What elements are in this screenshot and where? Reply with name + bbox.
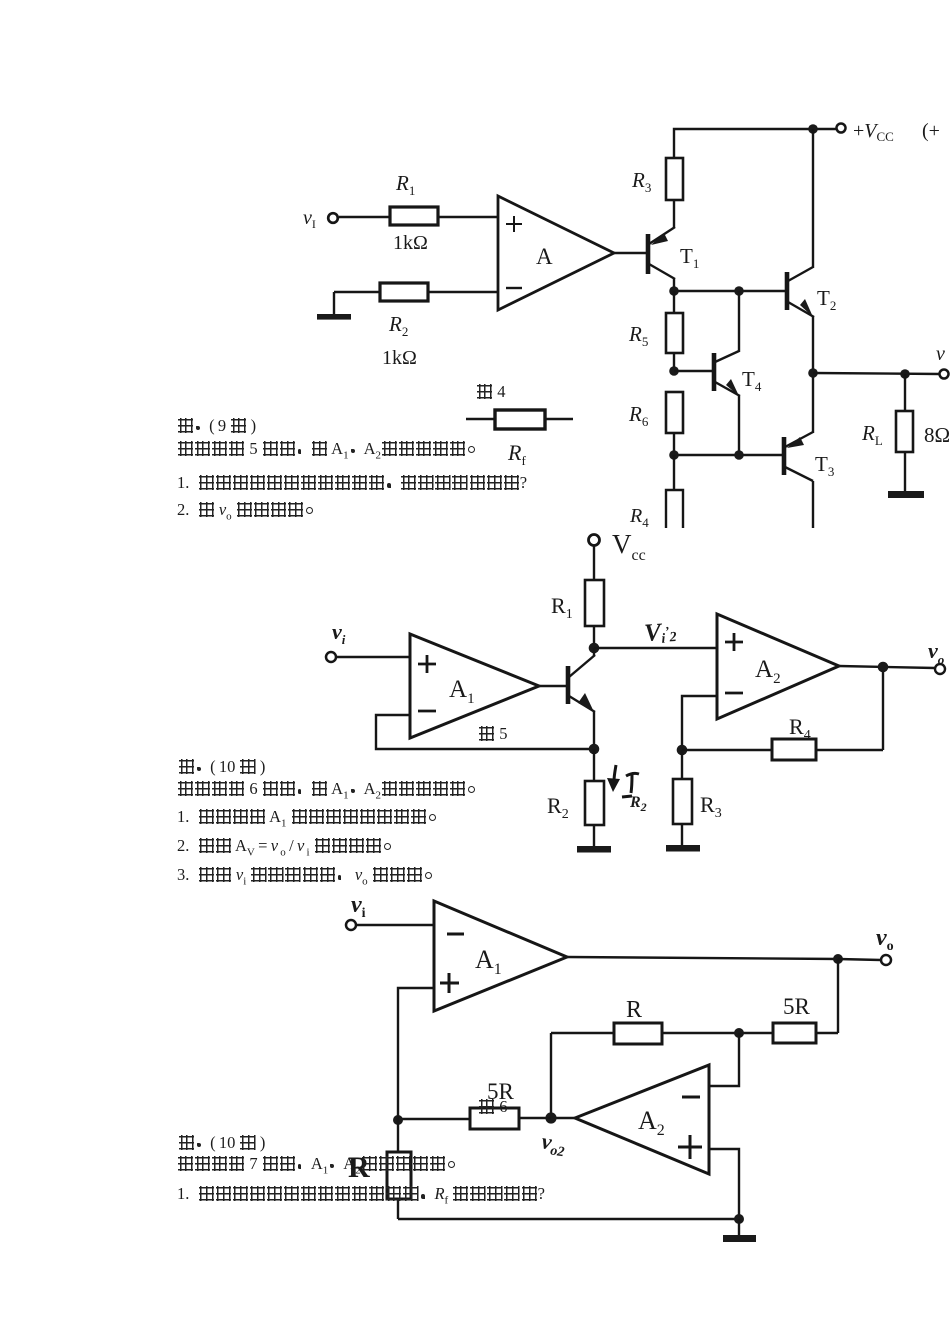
- text line 5 intro: [177, 439, 481, 461]
- wire Q collector to node: [593, 648, 595, 656]
- text line 5 q1: [177, 473, 527, 493]
- wire node to A2 + input: [594, 647, 717, 649]
- wire R6 to T3 base: [674, 454, 782, 456]
- svg-text:Rf: Rf: [507, 440, 526, 468]
- wire Q emitter down: [593, 712, 595, 749]
- svg-text:vo2: vo2: [540, 1128, 568, 1160]
- node T4 emitter: [734, 450, 744, 460]
- resistor R1 (fig5): [585, 580, 604, 626]
- op-amp A2 (fig6, points left): [575, 1065, 709, 1174]
- svg-text:T3: T3: [815, 452, 834, 479]
- svg-text:T2: T2: [817, 286, 836, 313]
- wire T2 collector to VCC: [812, 129, 814, 268]
- node R3/R4: [677, 745, 688, 756]
- wire T1 collector to T2 base: [674, 290, 785, 292]
- svg-text:1kΩ: 1kΩ: [382, 347, 417, 369]
- wire junction to A2 minus: [709, 1033, 739, 1086]
- svg-text:R1: R1: [551, 593, 573, 622]
- text line 5 q2: [177, 500, 319, 522]
- wire R1 to node: [593, 626, 595, 648]
- wire T2 emitter to output node: [812, 316, 814, 373]
- text line section 6 heading: [178, 757, 265, 777]
- transistor Q (NPN, fig5): [539, 655, 595, 712]
- wire T1 emitter to R3: [673, 200, 675, 228]
- resistor R5: [666, 291, 683, 371]
- svg-text:1kΩ: 1kΩ: [393, 232, 428, 254]
- node R5/R6/T4 base: [669, 366, 679, 376]
- svg-text:Vcc: Vcc: [612, 529, 646, 564]
- node vo terminal fig6: [881, 955, 891, 965]
- resistor R4 (fig5): [682, 739, 883, 760]
- svg-text:+VCC(+: +VCC(+: [853, 120, 940, 144]
- transistor T4 (NPN): [714, 351, 740, 396]
- svg-text:vo: vo: [928, 638, 945, 667]
- node vi terminal fig6: [346, 920, 356, 930]
- node vi terminal: [326, 652, 336, 662]
- wire node to T4 base: [674, 370, 712, 372]
- ground fig6: [723, 1219, 756, 1242]
- wire A2 out to vo2 node: [551, 1117, 575, 1119]
- node left junction: [393, 1115, 403, 1125]
- node +VCC terminal: [837, 124, 846, 133]
- svg-text:8Ω: 8Ω: [924, 423, 950, 447]
- node R/5R junction: [734, 1028, 744, 1038]
- node emitter/R2: [589, 744, 600, 755]
- annotation arrow + T -R2 handwritten: [614, 765, 639, 797]
- svg-text:R3: R3: [700, 792, 722, 821]
- wire T3 emitter to output node: [812, 373, 814, 433]
- node junction T4 collector: [734, 286, 744, 296]
- caption fig5: [478, 724, 507, 744]
- op-amp A2: [717, 614, 839, 719]
- svg-text:T4: T4: [742, 367, 762, 394]
- resistor R (top): [551, 1023, 739, 1044]
- text line 6 intro: [177, 779, 481, 801]
- svg-text:5R: 5R: [783, 994, 811, 1019]
- svg-text:R1: R1: [395, 171, 415, 198]
- resistor 5R (middle): [398, 1108, 551, 1129]
- wire A2 minus input: [682, 696, 717, 750]
- wire op-amp out to T1 base: [614, 252, 646, 254]
- resistor R4 (cut off): [666, 455, 683, 528]
- op-amp A1: [410, 634, 539, 738]
- resistor R (vertical): [387, 1120, 411, 1219]
- text line 6 q3: [177, 865, 438, 887]
- wire A2 plus input: [709, 1149, 739, 1219]
- text line section 7 heading: [178, 1133, 265, 1153]
- svg-text:RL: RL: [861, 421, 883, 448]
- node vI input terminal: [328, 213, 338, 223]
- transistor T2 (NPN): [787, 267, 814, 317]
- wire T4 emitter down: [738, 396, 740, 455]
- svg-text:R5: R5: [628, 322, 648, 349]
- wire feedback to A1 plus: [398, 988, 434, 1120]
- node at VCC rail: [808, 124, 818, 134]
- wire A2 out: [839, 666, 935, 668]
- resistor R2 (1k ohm): [380, 283, 428, 301]
- svg-text:Vi’2: Vi’2: [643, 618, 677, 648]
- node junction T1/R5: [669, 286, 679, 296]
- resistor R3 (fig5): [673, 750, 692, 847]
- wire A1 out to vo: [567, 957, 840, 959]
- node bottom: [734, 1214, 744, 1224]
- resistor R1 (1k ohm): [390, 207, 438, 225]
- transistor T1 (PNP): [648, 227, 675, 279]
- svg-text:v: v: [936, 343, 945, 365]
- svg-text:R2: R2: [388, 312, 408, 339]
- svg-text:R4: R4: [629, 505, 649, 530]
- resistor R6: [666, 392, 683, 455]
- node output: [808, 368, 818, 378]
- svg-text:R: R: [626, 997, 642, 1023]
- node at RL: [900, 369, 910, 379]
- node vo: [833, 954, 843, 964]
- text line 7 q1: [177, 1184, 545, 1206]
- wire R left down to vo2 node: [550, 1033, 552, 1117]
- ground under R2: [577, 846, 611, 853]
- wire vI to R1: [339, 216, 390, 218]
- svg-text:R4: R4: [789, 714, 811, 743]
- wire T3 collector down (cut off): [812, 481, 814, 528]
- node vo terminal fig5: [935, 664, 945, 674]
- svg-text:R2: R2: [547, 793, 569, 822]
- resistor RL (8 ohm): [896, 374, 913, 494]
- wire T4 collector up: [738, 291, 740, 352]
- node A2 out: [878, 662, 889, 673]
- wire vo node down to 5R: [837, 959, 839, 1033]
- op-amp A: [498, 196, 614, 310]
- op-amp A1 (fig6): [434, 901, 567, 1011]
- caption fig4: [476, 382, 505, 402]
- svg-text:R6: R6: [628, 402, 649, 429]
- resistor R3: [666, 158, 683, 200]
- wire vi to A1: [356, 924, 434, 926]
- text line 6 q1: [177, 807, 442, 829]
- ground (left, at R2 input): [317, 292, 351, 320]
- text line 7 intro: [177, 1154, 461, 1176]
- wire R4 to output: [882, 667, 884, 750]
- svg-text:T1: T1: [680, 244, 699, 271]
- ground under RL: [888, 491, 924, 498]
- wire R1 to op-amp +: [438, 216, 498, 218]
- node R6/R4: [669, 450, 679, 460]
- wire vi to A1: [336, 656, 410, 658]
- node Vi2: [589, 643, 600, 654]
- wire R3 to VCC rail: [674, 129, 836, 158]
- wire R2 to op-amp minus: [428, 291, 498, 293]
- resistor 5R (right): [739, 1023, 838, 1043]
- svg-text:vo: vo: [876, 925, 894, 954]
- wire Vcc to R1: [593, 546, 595, 580]
- text line 6 q2: [177, 836, 397, 858]
- resistor Rf fragment: [466, 410, 573, 429]
- text line section 5 heading: [177, 416, 256, 436]
- svg-text:vi: vi: [351, 892, 366, 921]
- resistor R2 (fig5): [585, 749, 604, 848]
- ground under R3: [666, 845, 700, 852]
- node vo2: [545, 1112, 556, 1123]
- svg-text:R3: R3: [631, 168, 651, 195]
- svg-text:vI: vI: [303, 207, 316, 231]
- svg-text:vi: vi: [332, 619, 346, 647]
- wire feedback A1 minus: [376, 715, 594, 749]
- svg-text:R2: R2: [629, 794, 647, 814]
- node vO terminal: [940, 370, 949, 379]
- transistor T3 (PNP): [784, 432, 813, 481]
- wire vo node to terminal: [838, 959, 881, 960]
- wire ground to R2: [334, 291, 380, 293]
- wire bottom rail: [398, 1218, 739, 1220]
- node Vcc terminal: [589, 535, 600, 546]
- svg-text:A: A: [536, 244, 553, 269]
- wire T1 collector down: [673, 278, 675, 291]
- wire output to vO terminal: [813, 373, 940, 374]
- caption fig6: [478, 1097, 507, 1117]
